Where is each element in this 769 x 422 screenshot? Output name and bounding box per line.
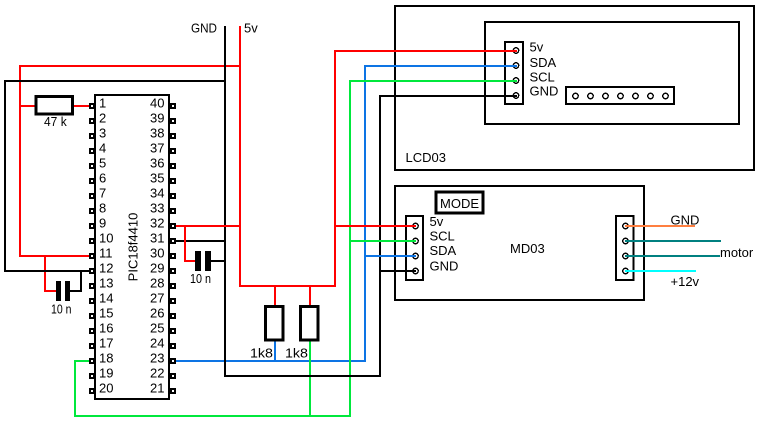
svg-text:47 k: 47 k <box>44 114 67 129</box>
svg-text:34: 34 <box>150 186 164 201</box>
svg-text:SDA: SDA <box>530 55 557 70</box>
svg-text:11: 11 <box>99 246 113 261</box>
svg-text:17: 17 <box>99 336 113 351</box>
svg-text:18: 18 <box>99 351 113 366</box>
svg-text:6: 6 <box>99 171 106 186</box>
svg-text:20: 20 <box>99 381 113 396</box>
svg-text:36: 36 <box>150 156 164 171</box>
svg-text:GND: GND <box>191 21 217 36</box>
svg-text:+12v: +12v <box>671 274 700 289</box>
svg-text:25: 25 <box>150 321 164 336</box>
svg-text:24: 24 <box>150 336 164 351</box>
svg-text:1k8: 1k8 <box>285 346 308 361</box>
svg-text:MODE: MODE <box>440 196 479 211</box>
svg-text:5v: 5v <box>244 21 258 36</box>
svg-text:16: 16 <box>99 321 113 336</box>
svg-text:GND: GND <box>430 259 459 274</box>
svg-text:5: 5 <box>99 156 106 171</box>
svg-text:10: 10 <box>99 231 113 246</box>
svg-text:13: 13 <box>99 276 113 291</box>
svg-text:10 n: 10 n <box>51 302 72 317</box>
svg-text:12: 12 <box>99 261 113 276</box>
svg-text:38: 38 <box>150 126 164 141</box>
svg-text:35: 35 <box>150 171 164 186</box>
svg-text:1k8: 1k8 <box>250 346 273 361</box>
svg-text:4: 4 <box>99 141 106 156</box>
svg-text:30: 30 <box>150 246 164 261</box>
svg-text:14: 14 <box>99 291 113 306</box>
svg-text:21: 21 <box>150 381 164 396</box>
svg-text:SDA: SDA <box>430 243 457 258</box>
svg-text:8: 8 <box>99 201 106 216</box>
svg-text:9: 9 <box>99 216 106 231</box>
svg-text:GND: GND <box>671 213 700 228</box>
svg-text:33: 33 <box>150 201 164 216</box>
svg-text:15: 15 <box>99 306 113 321</box>
svg-text:27: 27 <box>150 291 164 306</box>
svg-text:PIC18f4410: PIC18f4410 <box>126 213 141 282</box>
svg-text:2: 2 <box>99 111 106 126</box>
svg-text:1: 1 <box>99 96 106 111</box>
svg-text:SCL: SCL <box>430 229 455 244</box>
svg-text:5v: 5v <box>430 214 444 229</box>
svg-text:19: 19 <box>99 366 113 381</box>
svg-text:10 n: 10 n <box>190 271 211 286</box>
svg-text:GND: GND <box>530 84 559 99</box>
svg-text:29: 29 <box>150 261 164 276</box>
svg-text:32: 32 <box>150 216 164 231</box>
svg-text:MD03: MD03 <box>510 241 545 256</box>
svg-text:39: 39 <box>150 111 164 126</box>
svg-text:SCL: SCL <box>530 70 555 85</box>
svg-text:7: 7 <box>99 186 106 201</box>
svg-text:31: 31 <box>150 231 164 246</box>
svg-text:5v: 5v <box>530 40 544 55</box>
svg-text:LCD03: LCD03 <box>406 150 446 165</box>
svg-text:22: 22 <box>150 366 164 381</box>
svg-text:37: 37 <box>150 141 164 156</box>
svg-text:40: 40 <box>150 96 164 111</box>
svg-text:3: 3 <box>99 126 106 141</box>
svg-text:28: 28 <box>150 276 164 291</box>
svg-text:23: 23 <box>150 351 164 366</box>
svg-text:motor: motor <box>720 245 754 260</box>
svg-text:26: 26 <box>150 306 164 321</box>
